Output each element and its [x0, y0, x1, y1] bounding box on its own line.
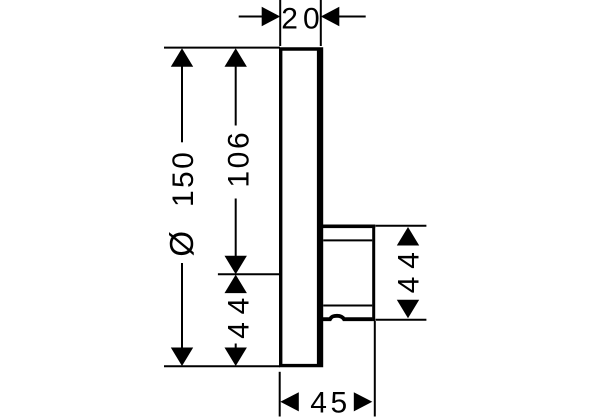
svg-text:45: 45	[310, 387, 351, 420]
svg-text:44: 44	[223, 290, 256, 339]
svg-text:44: 44	[393, 244, 426, 293]
svg-text:20: 20	[281, 2, 324, 35]
svg-text:Ø 150: Ø 150	[163, 150, 200, 257]
svg-text:106: 106	[223, 130, 256, 188]
